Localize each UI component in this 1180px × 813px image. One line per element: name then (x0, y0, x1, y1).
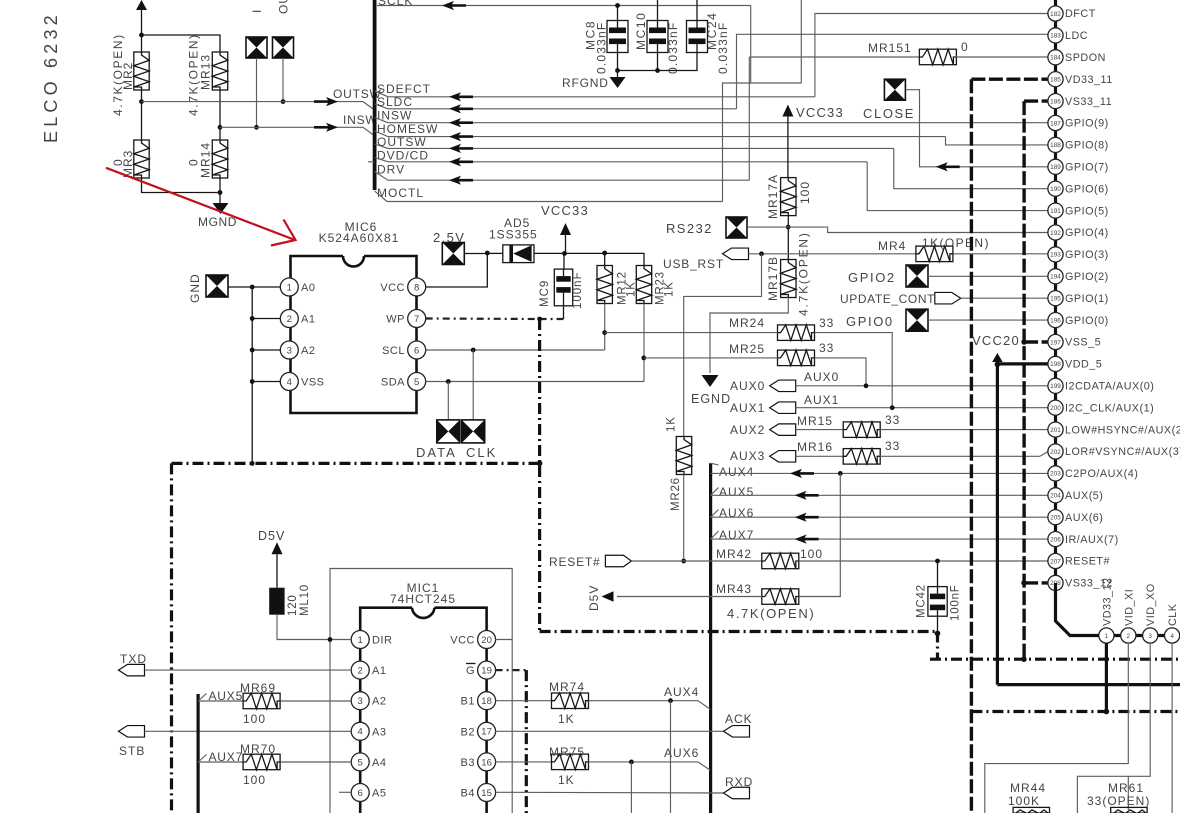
svg-text:33: 33 (819, 316, 834, 330)
capacitor MC24 0.033nF (687, 0, 731, 74)
label DATA CLK (416, 445, 497, 460)
svg-text:33(OPEN): 33(OPEN) (1087, 794, 1150, 808)
svg-text:VS33_11: VS33_11 (1065, 96, 1112, 108)
svg-text:1K: 1K (666, 416, 678, 432)
svg-text:206: 206 (1050, 536, 1061, 543)
svg-text:RS232: RS232 (666, 221, 713, 236)
svg-text:7: 7 (414, 314, 419, 325)
IC right-chip bottom bend (1056, 583, 1180, 636)
wire SLDC to LDC riser (737, 34, 1049, 109)
svg-text:4.7K(OPEN): 4.7K(OPEN) (187, 33, 201, 116)
node MR12 top junction (602, 251, 607, 256)
pin 185 VD33_11 (1048, 72, 1113, 87)
wire SDA riser to MR25 (643, 304, 645, 382)
wire SCL riser to MR24 (604, 304, 606, 351)
wire INSW feed (220, 127, 375, 136)
svg-text:186: 186 (1050, 98, 1061, 105)
resistor MR15 33 (797, 413, 900, 437)
wire MR151 to SPDON pin (956, 56, 1048, 58)
wire SCL (426, 349, 605, 351)
arrow OUTSW left (449, 144, 473, 153)
pin 182 DFCT (1048, 6, 1096, 21)
node rail-pin4 (250, 379, 255, 384)
wire VS33_12 pin stub (1024, 581, 1048, 584)
svg-text:100: 100 (243, 712, 266, 726)
svg-text:USB_RST: USB_RST (663, 257, 724, 271)
svg-text:204: 204 (1050, 493, 1061, 500)
node bowtie2-OUTSW junction (281, 99, 286, 104)
svg-text:MR44: MR44 (1010, 781, 1046, 795)
wire DATA bowtie lead (447, 382, 449, 421)
pin 3 A2 (280, 341, 315, 359)
bus dash-dot y631 (540, 630, 938, 633)
resistor MR3 (111, 140, 149, 178)
svg-text:CLK: CLK (1167, 603, 1179, 626)
node rail-pin3 (250, 348, 255, 353)
pin 190 GPIO(6) (1048, 181, 1109, 196)
resistor MR43 4.7K(OPEN) (716, 582, 799, 604)
svg-text:AUX6: AUX6 (719, 506, 754, 520)
svg-text:3: 3 (1148, 633, 1152, 640)
wire RESET# row (631, 560, 761, 562)
svg-text:RESET#: RESET# (1065, 556, 1110, 568)
pin 192 GPIO(4) (1048, 225, 1109, 240)
tag AUX1 (730, 401, 796, 415)
wire diode to VCC33 node (534, 252, 564, 254)
testpoint bowtie OUTSW (273, 0, 294, 58)
tag AUX0 (730, 379, 796, 393)
IC left-chip right edge (373, 0, 377, 190)
pin 19 G (MIC1) (466, 661, 496, 679)
svg-text:1: 1 (287, 282, 292, 293)
svg-text:200: 200 (1050, 405, 1061, 412)
node MC42 junction (935, 559, 940, 564)
node MGND junction (218, 190, 223, 195)
pin 191 GPIO(5) (1048, 203, 1109, 218)
wire MR25 to AUX0 node (815, 358, 867, 386)
IC MIC1 74HCT245 body (360, 608, 486, 813)
node 2.5V junction (485, 251, 490, 256)
bus dash-dot x539 vertical (538, 319, 541, 632)
wire HOMESW to GPIO(8) (946, 137, 1049, 145)
wire VCC33 rail to pullups (565, 252, 645, 254)
wire DRV (375, 172, 750, 181)
testpoint bowtie CLK (462, 420, 485, 443)
label AUX6 (lower) (664, 746, 699, 760)
tag RESET# (549, 555, 631, 569)
svg-text:1SS355: 1SS355 (489, 228, 538, 242)
label net AUX1 (804, 393, 839, 407)
tag RXD (724, 775, 754, 799)
pin 188 GPIO(8) (1048, 137, 1109, 152)
svg-text:LOW#HSYNC#/AUX(2): LOW#HSYNC#/AUX(2) (1065, 424, 1180, 436)
resistor MR69 100 (240, 681, 280, 726)
arrow OUTSW right (314, 97, 338, 106)
svg-text:194: 194 (1050, 274, 1061, 281)
wire AUX6 drop (630, 762, 632, 813)
svg-text:1K: 1K (558, 712, 575, 726)
node INSW junction on MR13 leg (218, 125, 223, 130)
pin 2 VID_XI (1121, 589, 1136, 643)
svg-text:4.7K(OPEN): 4.7K(OPEN) (111, 33, 125, 116)
svg-text:I2CDATA/AUX(0): I2CDATA/AUX(0) (1065, 381, 1154, 393)
wire MC9 bottom to WP net (563, 306, 565, 319)
wire HOMESW (375, 131, 946, 137)
pin 207 RESET# (1048, 553, 1110, 568)
node VDD_5 junction (995, 362, 1001, 368)
svg-text:STB: STB (119, 744, 145, 758)
svg-text:RFGND: RFGND (562, 76, 609, 90)
wire SCLK (377, 5, 751, 7)
svg-text:SDEFCT: SDEFCT (377, 82, 431, 96)
svg-text:MC10: MC10 (634, 12, 648, 50)
svg-text:6: 6 (414, 345, 419, 356)
wire D5V to ML10 (276, 554, 278, 587)
svg-text:VSS_5: VSS_5 (1065, 337, 1101, 349)
svg-text:MC9: MC9 (539, 280, 551, 307)
wire VSS_5 pin stub (1024, 340, 1048, 343)
resistor MR13 (187, 33, 228, 116)
wire MR2-MR13 top link (142, 35, 221, 52)
wire DVD/CD (368, 158, 867, 162)
svg-text:197: 197 (1050, 339, 1061, 346)
wire SDA (426, 381, 644, 383)
svg-text:VSS: VSS (301, 377, 325, 389)
svg-text:A0: A0 (301, 282, 315, 294)
pin 198 VDD_5 (1048, 356, 1102, 371)
resistor MR23 1K (636, 253, 675, 305)
wire pin18 to MR74 (496, 700, 552, 702)
pin 15 B4 (MIC1) (461, 784, 496, 802)
svg-text:188: 188 (1050, 142, 1061, 149)
svg-text:GND: GND (188, 273, 202, 303)
svg-text:AUX0: AUX0 (730, 379, 765, 393)
bus dash-dot y711 (971, 710, 1180, 713)
pin label DRV (377, 163, 405, 177)
svg-text:191: 191 (1050, 208, 1061, 215)
resistor MR44 100K (1008, 781, 1050, 813)
svg-text:RESET#: RESET# (549, 555, 600, 569)
svg-text:MR69: MR69 (240, 681, 276, 695)
svg-text:207: 207 (1050, 558, 1061, 565)
svg-text:C2PO/AUX(4): C2PO/AUX(4) (1065, 468, 1138, 480)
capacitor MC42 100nF (916, 561, 962, 621)
arrow AUX7 left (795, 535, 819, 544)
wire MR69 to pin3 (281, 700, 352, 702)
svg-text:100: 100 (800, 547, 823, 561)
diode AD5 1SS355 (487, 216, 537, 263)
svg-text:183: 183 (1050, 33, 1061, 40)
wire TXD to pin2 (145, 669, 352, 671)
bus VS33 x1024 vertical (1022, 101, 1025, 659)
pin 1 VD33_12 (1099, 577, 1114, 643)
wire OUTSW to GPIO(6) (894, 148, 1048, 188)
wire AUX6 row (711, 516, 1048, 518)
wire MR14 bottom (219, 178, 221, 193)
ground MGND (198, 193, 237, 230)
wire pin1 drop thick (1105, 643, 1108, 712)
wire MR25 left (644, 357, 778, 359)
pin label INSW (chip) (377, 109, 412, 123)
wire pin15 to RXD (496, 791, 724, 794)
svg-text:33: 33 (885, 413, 900, 427)
pin 4 VSS (280, 373, 324, 391)
wire MR16 to pin202 (880, 452, 1048, 457)
svg-text:B4: B4 (461, 788, 475, 800)
svg-text:AUX2: AUX2 (730, 423, 765, 437)
label INSW (343, 113, 378, 127)
wire MR13 bottom to MR14 (219, 90, 221, 140)
tag ACK (724, 712, 753, 737)
node AUX6 drop junction (629, 760, 634, 765)
title text ELCO 6232 (rotated) (41, 11, 61, 143)
node SCL-CLK junction (471, 348, 476, 353)
wire OUTSW feed (142, 102, 375, 110)
bus AUX4-7 vertical (709, 463, 712, 813)
svg-text:A2: A2 (301, 345, 315, 357)
pin label SCLK (378, 0, 413, 8)
node dashbus MC42 (935, 631, 941, 637)
wire MR43 to D5V (617, 596, 762, 598)
svg-text:17: 17 (481, 727, 492, 738)
wire AUX5 to MR69 (198, 700, 243, 702)
svg-text:MR26: MR26 (670, 477, 682, 511)
pin 189 GPIO(7) (1048, 159, 1109, 174)
pin 193 GPIO(3) (1048, 247, 1109, 262)
pin 2 A1 (280, 310, 315, 328)
pin 197 VSS_5 (1048, 334, 1101, 349)
svg-text:SCLK: SCLK (378, 0, 413, 8)
svg-text:1: 1 (1105, 633, 1109, 640)
bus VDD x997 vertical (996, 364, 999, 684)
svg-text:16: 16 (481, 757, 492, 768)
label net AUX0 (804, 370, 839, 384)
wire DVD/CD to GPIO(5) (867, 162, 1048, 211)
svg-text:100nF: 100nF (572, 271, 584, 309)
wire pin17 to ACK (496, 730, 724, 732)
svg-text:MR61: MR61 (1108, 781, 1144, 795)
svg-text:VD33_11: VD33_11 (1065, 74, 1113, 86)
svg-text:100: 100 (243, 773, 266, 787)
svg-text:193: 193 (1050, 252, 1061, 259)
svg-text:CLOSE: CLOSE (863, 106, 915, 121)
pin 5 SDA (381, 373, 426, 391)
pin 205 AUX(6) (1048, 510, 1104, 525)
svg-text:GPIO(5): GPIO(5) (1065, 205, 1109, 217)
wire AUX2 to MR15 (796, 429, 844, 431)
testpoint bowtie CLOSE (863, 79, 915, 121)
bus VDD y684 horizontal (997, 683, 1180, 686)
IC MIC6 K524A60X81 body (291, 256, 417, 413)
bus dash-dot x937 jog (936, 632, 939, 660)
svg-text:VCC20: VCC20 (972, 333, 1020, 348)
wire pin16 to MR75 (496, 761, 552, 763)
power D5V (MIC1) (258, 529, 285, 554)
wire pin20 stub (496, 639, 513, 641)
node OUTSW junction on MR2 leg (139, 99, 144, 104)
svg-text:203: 203 (1050, 471, 1061, 478)
svg-text:15: 15 (481, 788, 492, 799)
node WP dash junction (537, 317, 542, 322)
node USB_RST branch junction (759, 251, 764, 256)
svg-text:A5: A5 (372, 788, 386, 800)
power VCC33 (right) (782, 105, 844, 178)
svg-text:GPIO2: GPIO2 (848, 270, 896, 285)
arrow AUX5 left (795, 491, 819, 500)
svg-text:I2C_CLK/AUX(1): I2C_CLK/AUX(1) (1065, 402, 1154, 414)
svg-text:GPIO(7): GPIO(7) (1065, 162, 1109, 174)
wire AUX7 to MR70 (198, 761, 243, 763)
svg-text:UPDATE_CONT: UPDATE_CONT (840, 292, 935, 306)
arrow INSW right (314, 123, 338, 132)
node dashbus-x539 (537, 461, 543, 467)
wire MR75 to AUX6 bus (589, 762, 711, 771)
svg-text:LDC: LDC (1065, 30, 1088, 42)
svg-text:100K: 100K (1008, 794, 1040, 808)
svg-text:AUX(6): AUX(6) (1065, 512, 1103, 524)
svg-text:199: 199 (1050, 383, 1061, 390)
label AUX6 bus stub (711, 506, 755, 520)
testpoint bowtie GND (188, 273, 228, 303)
label MIC6 title (345, 220, 378, 234)
resistor MR12 1K (597, 253, 638, 305)
testpoint bowtie DATA (437, 420, 460, 443)
svg-text:GPIO0: GPIO0 (846, 314, 894, 329)
svg-text:100nF: 100nF (950, 584, 962, 621)
label 4.7K(OPEN) MR43 (727, 606, 815, 621)
wire CLK bowtie lead (472, 350, 474, 420)
resistor MR75 1K (549, 745, 589, 787)
svg-text:AUX(5): AUX(5) (1065, 490, 1103, 502)
svg-text:GPIO(2): GPIO(2) (1065, 271, 1109, 283)
tag USB_RST (663, 248, 749, 271)
label OUTSW (333, 87, 382, 101)
svg-text:182: 182 (1050, 11, 1061, 18)
svg-text:A1: A1 (301, 314, 315, 326)
pin 194 GPIO(2) (1048, 269, 1109, 284)
testpoint bowtie INSW (246, 9, 267, 58)
pin 199 I2CDATA/AUX(0) (1048, 378, 1154, 393)
wire MR24 to AUX1 node (815, 333, 893, 408)
svg-text:4.7K(OPEN): 4.7K(OPEN) (727, 606, 815, 621)
svg-text:EGND: EGND (691, 392, 731, 406)
svg-text:190: 190 (1050, 186, 1061, 193)
svg-text:VID_XI: VID_XI (1123, 589, 1135, 626)
pin 3 VID_XO (1143, 583, 1158, 643)
node AUX4 drop junction (668, 698, 673, 703)
svg-text:2: 2 (358, 666, 363, 677)
svg-text:100: 100 (798, 181, 812, 204)
svg-text:GPIO(0): GPIO(0) (1065, 315, 1109, 327)
pin 184 SPDON (1048, 50, 1106, 65)
pin label MOCTL (377, 186, 424, 200)
wire MR4 to GPIO(3) (953, 253, 1048, 255)
svg-text:VCC: VCC (380, 282, 405, 294)
svg-text:ELCO 6232: ELCO 6232 (41, 11, 61, 143)
svg-text:205: 205 (1050, 515, 1061, 522)
bus dash-dot left vertical (170, 463, 173, 813)
pin 201 LOW#HSYNC#/AUX(2) (1048, 422, 1180, 437)
wire AUX1 to pin200 (796, 407, 1048, 409)
svg-text:2.5V: 2.5V (433, 230, 465, 245)
svg-text:GPIO(4): GPIO(4) (1065, 227, 1109, 239)
svg-text:195: 195 (1050, 296, 1061, 303)
svg-text:202: 202 (1050, 449, 1061, 456)
wire 2.5V bowtie to node (464, 253, 487, 255)
svg-text:4: 4 (1170, 633, 1174, 640)
node AUX0 junction (864, 383, 869, 388)
svg-text:GPIO(6): GPIO(6) (1065, 183, 1109, 195)
svg-text:INSW: INSW (343, 113, 378, 127)
arrow HOMESW left (449, 132, 473, 141)
label K524A60X81 (319, 231, 400, 245)
wire VDD_5 pin stub (997, 362, 1048, 365)
wire AUX5 row (711, 494, 1048, 496)
svg-text:B2: B2 (461, 726, 475, 738)
wire RS232 to MR17 junction (747, 226, 788, 228)
svg-text:VDD_5: VDD_5 (1065, 359, 1102, 371)
wire MR17 junction to GPIO(4) (788, 227, 1048, 232)
node rail-pin2 (250, 316, 255, 321)
pin 204 AUX(5) (1048, 488, 1104, 503)
svg-text:AUX3: AUX3 (730, 449, 765, 463)
label AUX5 bus stub (711, 485, 755, 499)
label AUX4 (lower) (664, 685, 699, 699)
inductor ML10 120 (269, 584, 311, 616)
wire AUX3 to MR16 (796, 455, 844, 457)
label AUX5 stub (198, 689, 243, 703)
pin 4 CLK (1165, 603, 1180, 643)
svg-text:MR17B: MR17B (766, 256, 780, 301)
svg-text:VCC33: VCC33 (541, 203, 589, 218)
label MIC1 title (407, 581, 440, 595)
wire MR24 left (605, 332, 778, 334)
tag AUX2 (730, 423, 796, 437)
pin 3 A2 (MIC1) (351, 692, 386, 710)
wire MR61 top lead (1127, 776, 1129, 810)
arrow AUX6 left (795, 513, 819, 522)
node AUX4-MR43 junction (838, 471, 843, 476)
svg-text:MOCTL: MOCTL (377, 186, 424, 200)
svg-text:MR4: MR4 (878, 239, 906, 253)
svg-text:3: 3 (287, 345, 292, 356)
wire MIC1 VCC loop rectangle (330, 569, 512, 813)
svg-text:201: 201 (1050, 427, 1061, 434)
svg-text:74HCT245: 74HCT245 (390, 592, 456, 606)
resistor MR151 (868, 40, 969, 65)
svg-text:19: 19 (481, 666, 492, 677)
pin 196 GPIO(0) (1048, 313, 1109, 328)
svg-text:SPDON: SPDON (1065, 52, 1106, 64)
wire AUX0 to pin199 (796, 385, 1048, 387)
pin 1 A0 (280, 278, 315, 296)
wire MR3 bottom to MGND (142, 178, 221, 193)
svg-text:MR16: MR16 (797, 440, 833, 454)
wire pin3 stub (252, 349, 280, 351)
svg-text:192: 192 (1050, 230, 1061, 237)
label AUX7 bus stub (711, 528, 755, 542)
pin 6 A5 (MIC1) (351, 784, 386, 802)
capacitor MC8 0.033nF (584, 6, 629, 75)
svg-text:0.033nF: 0.033nF (595, 22, 609, 74)
svg-text:5: 5 (414, 377, 419, 388)
wire MR43 to AUX4 (799, 473, 841, 596)
svg-text:A4: A4 (372, 757, 386, 769)
svg-text:G: G (466, 665, 475, 677)
svg-text:ML10: ML10 (299, 584, 311, 616)
node DIR-VCC junction (328, 637, 333, 642)
bus AUX5/7 vertical thick (197, 694, 200, 813)
